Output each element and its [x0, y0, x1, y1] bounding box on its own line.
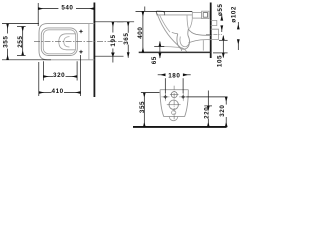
dim 320 plan: [43, 61, 77, 80]
svg-text:180: 180: [168, 72, 180, 79]
wall line plan: [93, 3, 95, 98]
bowl outline: [59, 34, 76, 50]
svg-text:220: 220: [204, 107, 211, 119]
rim outer rounded rect: [41, 28, 77, 56]
dim 355 rear: [141, 93, 160, 127]
dim 320 rear: [186, 97, 227, 127]
sump semicircle: [169, 116, 178, 120]
dim 180: [158, 75, 191, 94]
svg-text:ø102: ø102: [231, 6, 238, 23]
flush pipe stub behind wall: [211, 20, 217, 25]
wall line side: [210, 3, 212, 59]
dim 355 plan: [2, 24, 51, 60]
svg-text:355: 355: [139, 101, 146, 113]
seat fixing star bottom: [79, 50, 84, 55]
fixing star right: [179, 93, 187, 101]
outlet circle rear: [169, 100, 178, 109]
bowl shelf line: [172, 32, 178, 33]
trap inner arc: [180, 37, 189, 47]
svg-text:ø55: ø55: [217, 4, 224, 17]
svg-text:320: 320: [53, 72, 65, 79]
dim 255 plan: [17, 27, 26, 56]
rear bottom step: [202, 40, 204, 50]
rim inner rounded rect: [43, 30, 75, 54]
bowl front inner profile: [160, 15, 170, 32]
datum bottom thick line: [139, 51, 211, 53]
outlet duct lower: [189, 40, 211, 43]
svg-text:65: 65: [151, 56, 158, 64]
svg-text:365: 365: [123, 33, 130, 45]
seat fixing star top: [79, 29, 84, 34]
dim 410 plan: [39, 55, 81, 96]
flush connector block: [192, 12, 201, 18]
fixing star left: [161, 93, 169, 101]
dim 220: [204, 91, 212, 127]
dim 65: [154, 42, 164, 59]
rear centerline vertical: [173, 86, 175, 121]
bowl front outer profile: [158, 15, 182, 51]
dim 105: [213, 36, 228, 58]
bowl inner arc: [64, 37, 70, 47]
svg-text:400: 400: [137, 27, 144, 39]
svg-text:255: 255: [17, 36, 24, 48]
small drain circle: [172, 111, 176, 115]
underside front lip: [160, 47, 186, 52]
outlet duct upper: [188, 29, 210, 35]
rim top line: [157, 14, 193, 16]
dim 540: [38, 3, 94, 26]
trap U: [177, 29, 190, 49]
dim diameter 55: [221, 14, 223, 32]
dim diameter 102: [237, 22, 239, 50]
outlet centerline: [206, 33, 222, 35]
svg-text:195: 195: [110, 34, 117, 46]
front rim block: [156, 11, 164, 15]
svg-text:105: 105: [217, 55, 224, 67]
flush inlet circle: [171, 92, 177, 98]
svg-text:320: 320: [219, 105, 226, 117]
svg-text:355: 355: [3, 36, 10, 48]
outer ceramic body plan: [39, 24, 94, 60]
floor line: [133, 126, 227, 128]
dim 365: [117, 22, 134, 58]
back edge line: [88, 24, 90, 60]
outlet pipe stub behind wall: [211, 29, 219, 39]
rear slope: [187, 15, 192, 29]
svg-text:410: 410: [52, 88, 64, 95]
dim 195: [94, 22, 123, 63]
dim 400: [136, 7, 193, 53]
rear body outline: [160, 90, 188, 117]
svg-text:540: 540: [61, 4, 73, 11]
centerline plan: [34, 41, 123, 43]
